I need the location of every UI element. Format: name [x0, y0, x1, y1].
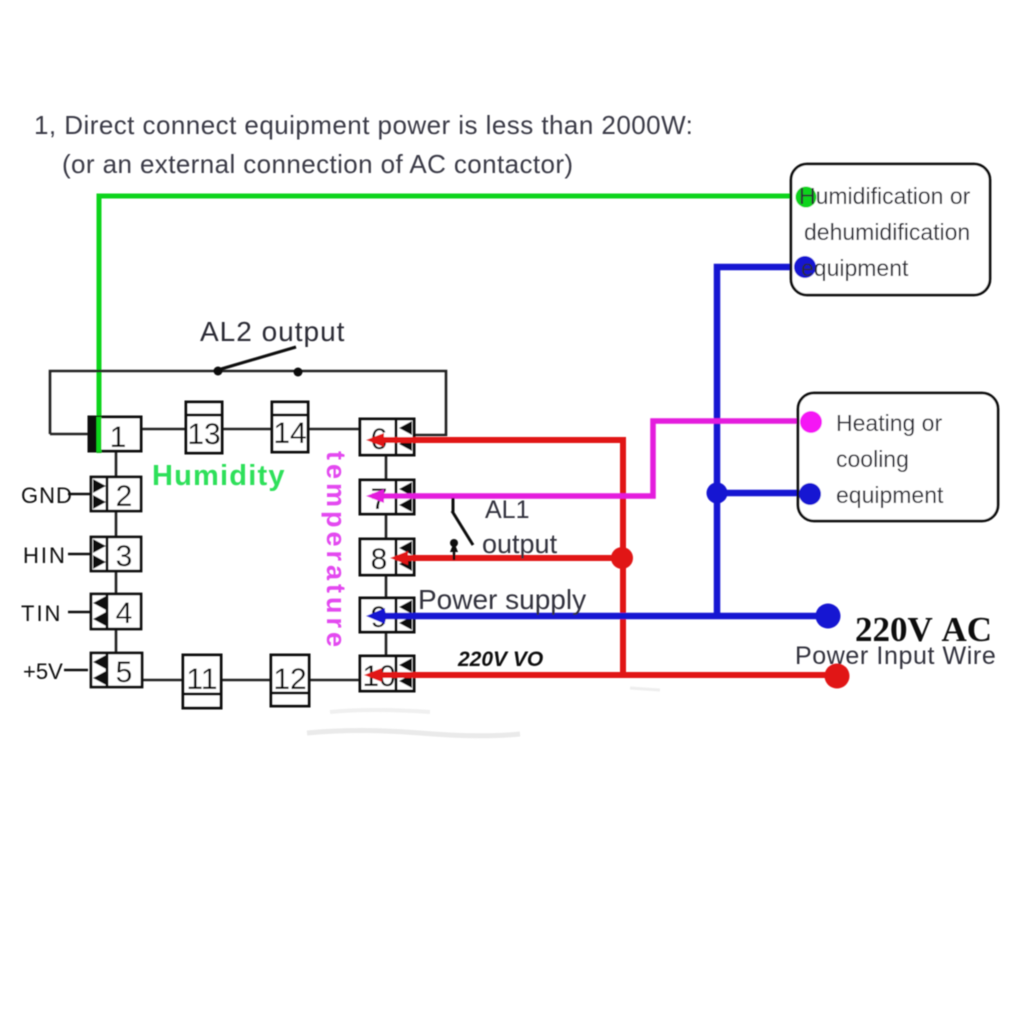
svg-text:Humidity: Humidity	[152, 460, 286, 492]
svg-text:14: 14	[273, 417, 306, 450]
svg-text:220V VO: 220V VO	[457, 648, 543, 671]
svg-text:AL2 output: AL2 output	[200, 316, 345, 347]
wire AL2 black loop	[50, 371, 446, 435]
wire from left loop into terminal 1	[50, 433, 89, 436]
node blue dot heating equipment	[799, 483, 822, 506]
svg-text:2: 2	[116, 480, 133, 513]
wire top row terminal 1 to 13	[141, 428, 186, 431]
svg-text:12: 12	[273, 663, 306, 696]
svg-text:cooling: cooling	[836, 446, 909, 472]
svg-text:AL1: AL1	[485, 496, 529, 524]
node magenta dot on heating box	[800, 411, 822, 433]
terminal 3	[91, 537, 141, 571]
node green dot at humidification box	[795, 186, 817, 208]
terminal 7	[360, 480, 414, 514]
svg-text:output: output	[482, 529, 558, 559]
wire magenta from terminal 7	[372, 421, 800, 496]
wire bottom row terminal 5 to 11	[142, 679, 183, 682]
switch AL1	[452, 498, 455, 512]
terminal 11	[183, 655, 221, 708]
terminal 1	[89, 417, 141, 451]
svg-text:11: 11	[186, 663, 217, 696]
wire red from terminal 8	[402, 555, 623, 561]
svg-text:equipment: equipment	[801, 255, 909, 281]
node magenta dot heating	[800, 411, 823, 434]
terminal 13	[186, 402, 222, 453]
wire red from terminal 6	[372, 440, 623, 676]
wire top row terminal 13 to 14	[222, 428, 272, 431]
svg-text:GND: GND	[21, 483, 73, 508]
wire top row terminal 14 to 6	[308, 428, 362, 431]
svg-text:5: 5	[116, 656, 133, 689]
svg-text:1, Direct connect equipment po: 1, Direct connect equipment power is les…	[34, 110, 693, 140]
node green dot on humidification box	[796, 187, 817, 208]
svg-text:Humidification or: Humidification or	[799, 183, 971, 209]
node blue dot humidification	[794, 256, 817, 279]
box heating equipment	[798, 393, 998, 521]
svg-text:HIN: HIN	[23, 543, 67, 568]
wire right column connectors	[385, 455, 388, 481]
terminal 12	[271, 655, 309, 706]
wire left column connectors	[115, 451, 118, 478]
svg-text:3: 3	[116, 540, 133, 573]
svg-text:equipment: equipment	[836, 482, 944, 508]
terminal 6	[360, 419, 414, 455]
wire green overlay through terminal 1	[97, 417, 102, 452]
terminal 4	[91, 594, 141, 629]
node red junction	[611, 547, 633, 569]
node blue dot on humidification box	[794, 256, 816, 278]
wire red bottom power	[372, 672, 837, 678]
wire bottom row terminal 12 to 10	[309, 679, 360, 682]
node blue dot on heating box	[799, 483, 821, 505]
svg-text:dehumidification: dehumidification	[804, 219, 970, 245]
terminal 14	[272, 402, 308, 452]
wire blue power supply	[374, 613, 828, 620]
switch AL2 contacts and lever	[214, 367, 223, 376]
wire bottom row terminal 11 to 12	[221, 679, 271, 682]
terminal 10	[360, 656, 414, 691]
terminal 8	[360, 539, 414, 575]
box humidification equipment	[791, 164, 990, 295]
node blue dot 220V AC	[816, 604, 841, 629]
node blue junction	[707, 483, 728, 504]
terminal 9	[360, 598, 414, 632]
svg-text:Power Input Wire: Power Input Wire	[795, 642, 996, 670]
svg-text:(or an external connection of: (or an external connection of AC contact…	[62, 149, 573, 179]
faint artifact smudges	[307, 731, 520, 736]
node red dot power input	[825, 664, 850, 689]
svg-text:4: 4	[116, 597, 133, 630]
svg-text:temperature: temperature	[321, 451, 351, 651]
svg-text:8: 8	[371, 543, 388, 576]
terminal 5	[91, 653, 142, 687]
wire blue branch to heating	[717, 490, 805, 497]
svg-text:TIN: TIN	[21, 601, 62, 626]
wire blue vertical	[717, 267, 805, 616]
terminal 2	[91, 477, 141, 511]
svg-text:+5V: +5V	[23, 659, 63, 684]
svg-text:Heating or: Heating or	[836, 410, 942, 436]
svg-text:1: 1	[110, 421, 127, 454]
wire green humidity loop	[99, 196, 800, 453]
svg-text:Power supply: Power supply	[418, 584, 586, 615]
svg-text:13: 13	[187, 418, 220, 451]
